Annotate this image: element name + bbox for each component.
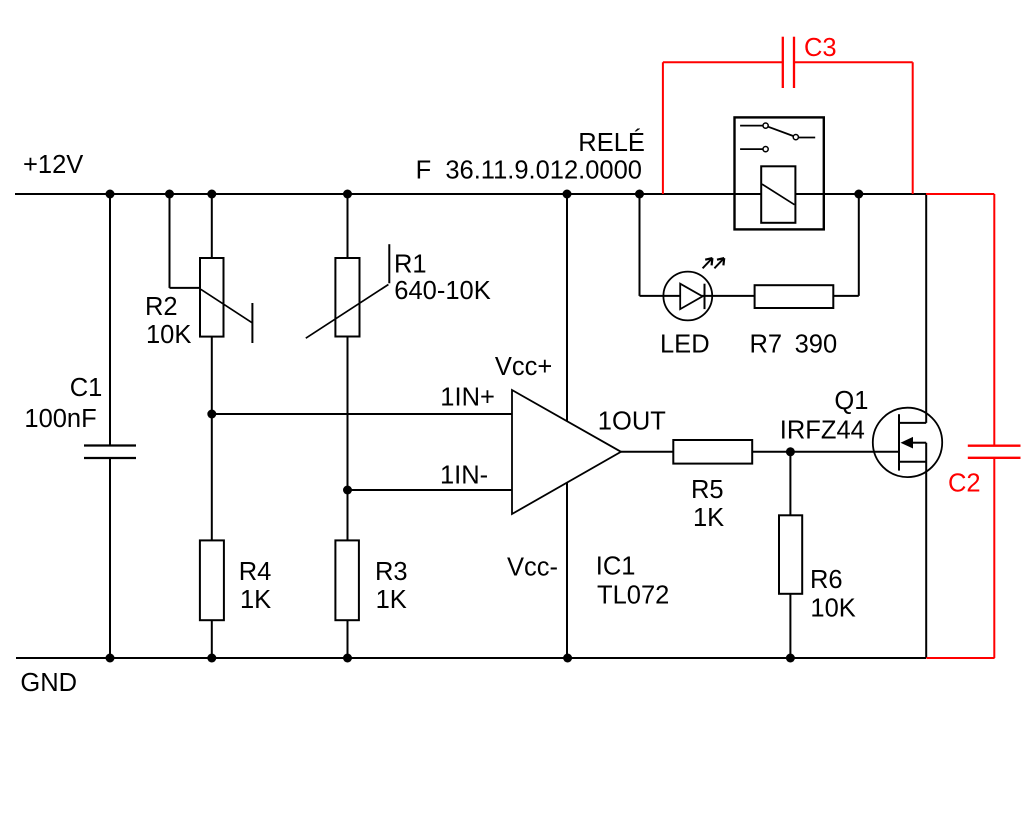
op-amp U1	[440, 353, 669, 610]
node rail Vcc	[563, 190, 572, 199]
wire C1 bottom	[109, 458, 111, 658]
svg-text:1IN+: 1IN+	[440, 383, 495, 411]
svg-text:R3: R3	[375, 558, 408, 586]
wire C3 right horizontal	[794, 61, 913, 63]
svg-text:R1: R1	[394, 251, 427, 279]
wire R1 top	[347, 194, 349, 258]
wire R6 top	[789, 452, 791, 516]
+12V rail	[15, 193, 926, 195]
wire R4 bottom	[211, 620, 213, 658]
svg-text:1OUT: 1OUT	[598, 408, 666, 436]
wire R7 up to rail	[858, 194, 860, 296]
relay K1	[735, 117, 824, 229]
node gnd R6	[786, 654, 795, 663]
wire 1IN+	[212, 413, 512, 415]
wire R2 bottom	[211, 337, 213, 414]
wire C1 top	[109, 194, 111, 446]
wire LED feed vertical	[639, 194, 641, 296]
wire R7 right	[833, 295, 859, 297]
svg-text:TL072: TL072	[597, 582, 669, 610]
wire R2 wiper feed horizontal	[170, 287, 201, 289]
wire R6 bottom	[789, 594, 791, 658]
svg-text:10K: 10K	[146, 321, 191, 349]
svg-text:Vcc-: Vcc-	[507, 553, 558, 581]
svg-text:GND: GND	[20, 669, 77, 697]
wire Q1 source	[925, 443, 927, 658]
svg-text:Vcc+: Vcc+	[495, 353, 552, 381]
wire R2 top	[211, 194, 213, 258]
wire C3 left vertical	[662, 62, 664, 194]
capacitor C1	[24, 374, 136, 458]
svg-text:RELÉ: RELÉ	[578, 128, 645, 157]
svg-text:IRFZ44: IRFZ44	[780, 417, 865, 445]
capacitor C2	[948, 446, 1021, 498]
svg-text:390: 390	[795, 331, 838, 359]
wire Q1 drain	[925, 194, 927, 423]
resistor R3	[335, 540, 407, 620]
svg-text:R6: R6	[810, 566, 843, 594]
wire R2-R4	[211, 414, 213, 540]
wire R2 wiper feed vertical	[169, 194, 171, 288]
svg-text:C3: C3	[804, 34, 837, 62]
node gnd Vcc-	[563, 654, 572, 663]
node 1IN+ R2	[207, 410, 216, 419]
node gnd C1	[106, 654, 115, 663]
wire C2 bottom feed	[993, 458, 995, 658]
resistor R5	[673, 440, 752, 532]
node gnd R3	[343, 654, 352, 663]
wire red rail segment bottom	[926, 657, 994, 659]
node rail R1	[343, 190, 352, 199]
node rail LED	[635, 190, 644, 199]
svg-text:R7: R7	[750, 331, 783, 359]
capacitor C3	[783, 34, 837, 88]
wire Vcc+	[566, 194, 568, 421]
svg-text:640-10K: 640-10K	[394, 277, 490, 305]
wire op-amp output	[621, 451, 673, 453]
node rail R2	[207, 190, 216, 199]
wire C2 top feed	[993, 194, 995, 446]
wire Vcc-	[566, 483, 568, 658]
svg-text:R4: R4	[239, 558, 272, 586]
svg-text:+12V: +12V	[23, 151, 83, 179]
node gnd R4	[207, 654, 216, 663]
node rail C1	[106, 190, 115, 199]
svg-text:R2: R2	[145, 293, 178, 321]
wire C3 left horizontal	[663, 61, 783, 63]
transistor Q1	[780, 387, 942, 477]
wire R1 bottom	[347, 337, 349, 541]
svg-text:100nF: 100nF	[24, 405, 96, 433]
svg-text:F 36.11.9.012.0000: F 36.11.9.012.0000	[416, 157, 642, 185]
svg-text:C2: C2	[948, 470, 981, 498]
svg-text:C1: C1	[70, 374, 103, 402]
wire red rail segment top	[926, 193, 994, 195]
svg-text:1K: 1K	[240, 586, 271, 614]
resistor R7	[750, 285, 838, 358]
node rail R2 wiper	[165, 190, 174, 199]
wire R5 to gate	[752, 451, 899, 453]
svg-text:1IN-: 1IN-	[440, 461, 488, 489]
node 1IN- R3	[343, 486, 352, 495]
LED D1	[660, 258, 724, 358]
svg-text:1K: 1K	[376, 586, 407, 614]
svg-text:Q1: Q1	[834, 387, 868, 415]
svg-text:IC1: IC1	[596, 553, 636, 581]
potentiometer R2	[145, 258, 252, 349]
svg-text:1K: 1K	[693, 504, 724, 532]
wire LED row	[640, 295, 755, 297]
svg-text:10K: 10K	[810, 594, 855, 622]
svg-text:R5: R5	[691, 476, 724, 504]
wire C3 right vertical	[912, 62, 914, 194]
GND rail	[16, 657, 926, 659]
wire R3 bottom	[347, 620, 349, 658]
svg-text:LED: LED	[660, 331, 710, 359]
node gate R6	[786, 447, 795, 456]
wire 1IN-	[348, 489, 513, 491]
resistor R4	[200, 540, 271, 620]
potentiometer R1	[306, 244, 491, 338]
resistor R6	[779, 515, 856, 622]
node rail R7	[854, 190, 863, 199]
